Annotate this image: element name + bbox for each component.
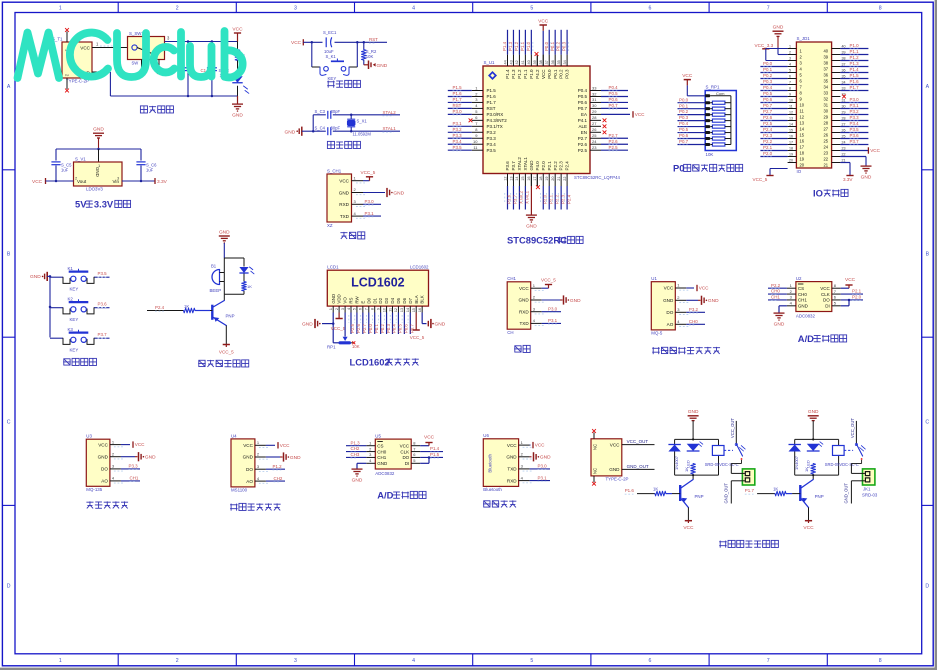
svg-text:P2.3: P2.3 — [560, 194, 565, 204]
svg-text:25: 25 — [592, 133, 597, 138]
svg-text:U6: U6 — [483, 433, 489, 438]
svg-text:Vout: Vout — [77, 179, 87, 184]
caption 串口 — [514, 345, 530, 352]
svg-text:VCC: VCC — [32, 179, 43, 185]
svg-text:GND: GND — [377, 63, 388, 69]
net label P1.4 (U5 CLK) — [420, 446, 443, 452]
ic U1 right pins with nets — [590, 85, 628, 151]
transistor Q1 PNP (alarm) — [212, 294, 234, 325]
svg-text:P3.6: P3.6 — [505, 161, 510, 171]
svg-text:11: 11 — [388, 308, 392, 312]
ground (LCD pin1) + wire to pot — [302, 306, 339, 343]
svg-text:1K: 1K — [804, 467, 809, 472]
svg-text:P1.5: P1.5 — [453, 85, 463, 90]
svg-text:IO: IO — [797, 169, 802, 174]
svg-text:DO: DO — [402, 455, 409, 460]
net label P1.7 (relay base) — [745, 488, 755, 494]
svg-text:P2.4: P2.4 — [763, 127, 773, 132]
net label P3.0 (U6 TXD) — [530, 464, 550, 470]
svg-text:10K: 10K — [352, 344, 360, 349]
ground (U4) — [266, 452, 301, 461]
capacitor C2 — [183, 42, 193, 97]
svg-text:VCC: VCC — [682, 73, 693, 79]
svg-text:P3.4: P3.4 — [850, 121, 860, 126]
svg-text:P1.5: P1.5 — [850, 73, 860, 78]
svg-text:TYPE-C-2P: TYPE-C-2P — [606, 477, 629, 482]
svg-text:P1.2: P1.2 — [850, 55, 860, 60]
svg-text:CS: CS — [377, 443, 383, 448]
svg-text:GND: GND — [93, 127, 104, 133]
svg-text:P0.3: P0.3 — [679, 115, 689, 120]
svg-text:CH1: CH1 — [507, 276, 516, 281]
net label XTAL2 — [383, 110, 397, 116]
svg-text:GND: GND — [609, 467, 620, 472]
svg-text:VCC_OUT: VCC_OUT — [627, 439, 649, 444]
connector JD1 pins — [788, 45, 846, 168]
svg-text:P0.5: P0.5 — [398, 324, 403, 333]
svg-text:VCC: VCC — [803, 525, 814, 531]
transistor Q PNP (relay driver) — [800, 475, 823, 507]
svg-text:P1.0: P1.0 — [529, 69, 534, 79]
svg-text:P1.7: P1.7 — [745, 488, 755, 493]
ground (JD1 pin 2) — [773, 25, 788, 55]
svg-text:16: 16 — [789, 135, 793, 139]
svg-text:P0.3: P0.3 — [562, 41, 567, 51]
svg-text:ADC0832: ADC0832 — [796, 314, 816, 319]
svg-text:34: 34 — [563, 60, 567, 64]
svg-text:P0.2: P0.2 — [556, 41, 561, 51]
power VCC (U3) — [121, 441, 145, 447]
svg-text:VCC: VCC — [280, 443, 290, 448]
svg-text:P0.5: P0.5 — [578, 94, 588, 99]
caption LCD1602显示模块 — [350, 357, 419, 368]
caption A/D转换电路 (bottom) — [377, 490, 426, 501]
svg-text:ADC0832: ADC0832 — [375, 471, 395, 476]
svg-text:P3.5: P3.5 — [98, 271, 108, 276]
power VCC_3.3 (JD1 pins 1,3) — [755, 43, 788, 60]
svg-text:XTAL2: XTAL2 — [517, 157, 522, 171]
net label P1.6 (relay base) — [625, 488, 635, 494]
svg-text:P3.3: P3.3 — [850, 115, 860, 120]
wires JD1 right nets P3.0-P3.7 — [840, 97, 868, 145]
svg-text:30: 30 — [592, 103, 597, 108]
caption A/D转换电路 (right) — [798, 333, 847, 344]
caption 声光报警电路 — [198, 360, 249, 367]
svg-text:LED: LED — [805, 460, 810, 468]
svg-text:GND: GND — [285, 129, 296, 135]
svg-text:5V: 5V — [75, 199, 87, 210]
svg-text:1: 1 — [329, 308, 333, 310]
svg-text:B1: B1 — [211, 263, 217, 268]
svg-text:1K: 1K — [653, 486, 658, 491]
svg-text:JK1: JK1 — [863, 487, 871, 492]
net label P2.1 (U2 CLK) — [841, 289, 863, 295]
svg-text:P0.5: P0.5 — [679, 127, 689, 132]
svg-text:26: 26 — [592, 127, 597, 132]
svg-text:P2.6: P2.6 — [763, 115, 773, 120]
svg-text:GND: GND — [808, 409, 819, 415]
svg-text:MS1100: MS1100 — [231, 488, 248, 493]
wire key bus vertical — [49, 275, 52, 337]
svg-text:U2: U2 — [796, 276, 802, 281]
svg-text:11.0592M: 11.0592M — [353, 131, 372, 136]
svg-text:P1.3: P1.3 — [511, 69, 516, 79]
svg-text:GND: GND — [352, 478, 363, 484]
net 3.3V out of LDO Vin — [122, 178, 168, 185]
svg-text:CH1: CH1 — [377, 455, 386, 460]
switch SW1 — [128, 31, 165, 66]
caption 晶振电路 — [327, 141, 360, 148]
svg-text:TXD: TXD — [507, 467, 517, 472]
relay coil K SRD-05VDC-SL-C — [825, 446, 859, 468]
svg-text:DI: DI — [825, 304, 830, 309]
svg-text:P4.3/INT2: P4.3/INT2 — [487, 118, 508, 123]
svg-text:13: 13 — [800, 120, 805, 125]
svg-text:P0.0: P0.0 — [368, 324, 373, 333]
svg-text:3.3V: 3.3V — [843, 177, 853, 182]
svg-text:6: 6 — [649, 658, 652, 664]
svg-text:19: 19 — [800, 156, 805, 161]
capacitor C4 30pF — [315, 125, 341, 135]
svg-text:VCC: VCC — [232, 27, 243, 33]
svg-text:P0.2: P0.2 — [763, 73, 773, 78]
svg-text:3: 3 — [294, 658, 297, 664]
svg-text:P0: P0 — [673, 163, 684, 174]
LED D (relay indicator) — [685, 442, 703, 468]
svg-text:34: 34 — [823, 84, 828, 89]
key K3 — [50, 327, 110, 353]
svg-text:P0.4: P0.4 — [679, 121, 689, 126]
key K1 (reset) — [312, 42, 358, 81]
svg-text:P0.4: P0.4 — [578, 88, 588, 93]
svg-text:12: 12 — [503, 177, 507, 181]
svg-text:A/D: A/D — [798, 333, 814, 344]
caption 下载口 — [340, 232, 364, 239]
svg-text:3: 3 — [294, 6, 297, 12]
svg-text:P1.4: P1.4 — [850, 67, 860, 72]
svg-text:VCC: VCC — [135, 442, 145, 447]
capacitor C5 1uF — [51, 162, 72, 181]
svg-text:28: 28 — [823, 120, 828, 125]
svg-text:P0.7: P0.7 — [763, 103, 773, 108]
svg-text:P2.4: P2.4 — [565, 161, 570, 171]
svg-text:VCC_5: VCC_5 — [410, 335, 425, 340]
svg-text:P2.2: P2.2 — [553, 161, 558, 171]
svg-text:GND: GND — [290, 455, 301, 461]
svg-text:P0.7: P0.7 — [578, 106, 588, 111]
svg-text:K2: K2 — [68, 296, 74, 301]
svg-text:GND: GND — [773, 25, 784, 31]
caption STC89C52RC主芯片 — [507, 235, 583, 246]
svg-text:P3.0: P3.0 — [365, 199, 375, 204]
ic U1 right pin names — [578, 88, 588, 153]
wire snubber loop — [795, 438, 839, 476]
svg-text:LCD1602: LCD1602 — [351, 276, 405, 290]
svg-text:P1.5: P1.5 — [430, 452, 440, 457]
svg-text:22: 22 — [563, 177, 567, 181]
svg-text:P1.5: P1.5 — [487, 88, 497, 93]
svg-text:RXD: RXD — [507, 478, 517, 483]
svg-text:P0.0: P0.0 — [547, 69, 552, 79]
svg-text:21: 21 — [557, 177, 561, 181]
power VCC into LDO Vout — [32, 178, 74, 185]
junction rail top C2 — [187, 40, 190, 43]
net label P1.5 (U5 DO/DI) — [420, 452, 443, 459]
svg-text:CH1: CH1 — [798, 298, 807, 303]
wires JD1 left nets P0.0-P0.7 P2.7-P2.0 — [760, 61, 787, 157]
svg-text:39: 39 — [533, 60, 537, 64]
svg-text:CH0: CH0 — [798, 292, 807, 297]
ground (gas) — [686, 296, 719, 305]
svg-text:P3.1: P3.1 — [850, 103, 860, 108]
svg-text:P2.0: P2.0 — [763, 151, 773, 156]
svg-text:4: 4 — [412, 6, 415, 12]
net label P3.0 (serial) — [542, 306, 561, 312]
svg-text:VCC_3.3: VCC_3.3 — [755, 43, 774, 48]
svg-text:P0.1: P0.1 — [553, 69, 558, 79]
svg-text:S_X1: S_X1 — [357, 118, 368, 123]
ground (U3) — [121, 452, 156, 461]
svg-text:PNP: PNP — [815, 494, 824, 499]
caption P0口上拉电阻电路 — [673, 163, 743, 174]
svg-text:P3.1: P3.1 — [365, 211, 375, 216]
resistor R 1K (relay base) — [637, 486, 680, 496]
svg-text:U5: U5 — [375, 434, 381, 439]
svg-text:K1: K1 — [68, 266, 74, 271]
net label P3.1 (download TXD) — [363, 211, 381, 217]
svg-text:A: A — [7, 84, 11, 90]
svg-text:VCC: VCC — [845, 277, 856, 283]
svg-text:D5: D5 — [396, 297, 401, 303]
ground (serial) — [542, 295, 581, 304]
svg-text:AO: AO — [667, 322, 674, 327]
svg-text:1K: 1K — [773, 486, 778, 491]
svg-text:6: 6 — [359, 308, 363, 310]
svg-text:KEY: KEY — [328, 76, 337, 81]
ground (U5 pin4) — [352, 463, 367, 483]
svg-text:VCC: VCC — [80, 45, 90, 50]
svg-text:P2.7: P2.7 — [578, 136, 588, 141]
svg-text:P2.7: P2.7 — [609, 133, 619, 138]
svg-text:D6: D6 — [402, 297, 407, 303]
svg-text:1K: 1K — [684, 467, 689, 472]
svg-text:23: 23 — [823, 150, 828, 155]
key K1 — [50, 266, 110, 292]
svg-text:U1: U1 — [651, 276, 657, 281]
svg-text:GND: GND — [98, 454, 109, 459]
svg-text:7: 7 — [767, 6, 770, 12]
module U4 MS1100 — [231, 433, 268, 492]
svg-text:VCC: VCC — [699, 286, 709, 291]
svg-text:10: 10 — [473, 139, 478, 144]
svg-text:15: 15 — [789, 129, 793, 133]
svg-text:DO: DO — [101, 467, 108, 472]
svg-text:39: 39 — [823, 54, 828, 59]
svg-text:P1.6: P1.6 — [487, 94, 497, 99]
svg-text:Bluetooth: Bluetooth — [487, 453, 492, 472]
svg-text:30pF: 30pF — [331, 109, 341, 114]
svg-text:41: 41 — [521, 60, 525, 64]
svg-text:5: 5 — [530, 6, 533, 12]
power VCC_5 (LCD pin15 BLA) — [410, 306, 425, 340]
svg-text:GND: GND — [861, 175, 872, 181]
svg-text:VCC: VCC — [507, 443, 517, 448]
svg-text:3.3V: 3.3V — [157, 179, 168, 185]
svg-text:P2.0: P2.0 — [852, 295, 862, 300]
svg-text:P2.5: P2.5 — [609, 145, 619, 150]
svg-text:26: 26 — [823, 132, 828, 137]
power VCC (U5 pin8) — [420, 435, 434, 446]
svg-text:P0.4: P0.4 — [392, 324, 397, 333]
svg-text:LDO3V3: LDO3V3 — [86, 187, 103, 192]
svg-text:D: D — [925, 584, 929, 590]
svg-text:LCD1602: LCD1602 — [350, 357, 390, 368]
svg-text:P1.3: P1.3 — [351, 440, 361, 445]
ground (keys bus) — [30, 272, 50, 281]
svg-text:3.3V: 3.3V — [94, 199, 114, 210]
svg-text:GND: GND — [570, 298, 581, 304]
no-connect pins U1 right (P4.1 ALE EN) — [603, 118, 607, 134]
svg-text:P2.3: P2.3 — [763, 133, 773, 138]
svg-text:P2.1: P2.1 — [548, 194, 553, 204]
svg-text:CLK: CLK — [821, 292, 830, 297]
svg-text:MQ-135: MQ-135 — [86, 487, 102, 492]
svg-text:P0.1: P0.1 — [550, 41, 555, 51]
capacitor C1 10uF — [201, 42, 230, 97]
svg-text:DO: DO — [666, 310, 673, 315]
svg-text:CH0: CH0 — [771, 289, 780, 294]
svg-text:P2.1: P2.1 — [763, 145, 773, 150]
transistor Q PNP (relay driver) — [680, 475, 703, 507]
svg-text:P0.0: P0.0 — [763, 61, 773, 66]
svg-text:VCC: VCC — [664, 286, 674, 291]
potentiometer RP1 10K (LCD VO) — [327, 306, 360, 350]
svg-text:VCC: VCC — [683, 525, 694, 531]
svg-text:12: 12 — [394, 308, 398, 312]
ic U1 bottom pin names (rotated) — [505, 157, 570, 171]
net VCC_OUT wire — [622, 439, 655, 444]
svg-text:S_U1: S_U1 — [484, 60, 496, 65]
svg-text:P0.7: P0.7 — [679, 139, 689, 144]
svg-text:D3: D3 — [384, 297, 389, 303]
svg-text:P3.3: P3.3 — [129, 464, 139, 469]
svg-text:P0.6: P0.6 — [404, 324, 409, 333]
svg-text:10K: 10K — [366, 54, 374, 59]
svg-text:P4.2: P4.2 — [535, 69, 540, 79]
svg-text:RP1: RP1 — [327, 345, 336, 350]
ground (U6) — [530, 452, 551, 461]
svg-text:9: 9 — [789, 93, 791, 97]
svg-text:VCC_5: VCC_5 — [331, 326, 346, 331]
svg-text:PNP: PNP — [226, 314, 235, 319]
svg-text:4: 4 — [412, 658, 415, 664]
LED D (relay indicator) — [805, 442, 823, 468]
svg-text:P2.0: P2.0 — [541, 161, 546, 171]
svg-text:GND: GND — [663, 298, 674, 303]
svg-text:XZ: XZ — [327, 223, 333, 228]
svg-text:P0.6: P0.6 — [609, 97, 619, 102]
svg-text:TXD: TXD — [520, 321, 530, 326]
wires P0.0-P0.7 into RP1 — [678, 97, 706, 145]
svg-text:20: 20 — [789, 159, 793, 163]
wire alarm top node — [224, 258, 244, 268]
ground (LDO top) — [93, 127, 104, 149]
caption IO拓展口 — [813, 188, 848, 199]
svg-text:P2.5: P2.5 — [350, 324, 355, 333]
power VCC on EA pin — [601, 111, 645, 117]
svg-text:VCC_5: VCC_5 — [219, 350, 234, 355]
svg-text:P0.1: P0.1 — [374, 324, 379, 333]
svg-text:TXD: TXD — [340, 214, 350, 219]
svg-text:P3.6: P3.6 — [850, 133, 860, 138]
net label CH2 (U4 AO) — [266, 476, 285, 482]
no-connect pins of T1 — [65, 28, 69, 92]
svg-text:14: 14 — [800, 126, 805, 131]
svg-text:11: 11 — [789, 105, 793, 109]
svg-text:3: 3 — [789, 57, 791, 61]
MCUclub logo — [18, 31, 243, 78]
svg-text:P0.0: P0.0 — [679, 97, 689, 102]
module U1 MQ-5 gas sensor — [651, 276, 688, 335]
svg-text:30pF: 30pF — [331, 125, 341, 130]
svg-text:VCC: VCC — [610, 442, 620, 447]
ic U1 left pin names — [487, 88, 508, 153]
svg-text:P1.1: P1.1 — [520, 41, 525, 51]
net label P3.1 (U6 RXD) — [530, 475, 550, 481]
svg-text:P1.4: P1.4 — [502, 41, 507, 51]
svg-text:P0.7: P0.7 — [409, 324, 414, 333]
svg-text:1N4007: 1N4007 — [794, 455, 799, 470]
svg-text:S_C4: S_C4 — [315, 125, 326, 130]
svg-text:P2.5: P2.5 — [763, 121, 773, 126]
svg-text:P3.4: P3.4 — [487, 142, 497, 147]
svg-text:44: 44 — [503, 60, 507, 64]
ic U1 STC89C52RC_LQFP44 body — [483, 60, 620, 180]
svg-text:AO: AO — [101, 479, 108, 484]
svg-text:VCC: VCC — [519, 286, 529, 291]
net label RST — [369, 37, 378, 43]
svg-text:21: 21 — [823, 162, 828, 167]
net label CH1 (U3 AO) — [121, 476, 140, 482]
power VCC (RP1) — [682, 73, 693, 85]
svg-text:GND: GND — [377, 461, 388, 466]
svg-text:GND: GND — [243, 455, 254, 460]
svg-text:29: 29 — [823, 114, 828, 119]
svg-text:8: 8 — [789, 87, 791, 91]
svg-text:LCD1602: LCD1602 — [410, 265, 429, 270]
svg-text:37: 37 — [545, 60, 549, 64]
column zone ticks top — [118, 2, 827, 666]
net GND_OUT wire — [622, 464, 655, 469]
nets U2 left P2.2 CH0 CH1 — [768, 283, 787, 301]
svg-text:22: 22 — [823, 156, 828, 161]
svg-text:STC89C52RC: STC89C52RC — [507, 235, 567, 246]
svg-text:VCC: VCC — [538, 18, 549, 24]
svg-text:U4: U4 — [231, 433, 237, 438]
svg-text:D4: D4 — [390, 297, 395, 303]
svg-text:20: 20 — [800, 162, 805, 167]
svg-text:P2.4: P2.4 — [155, 305, 165, 310]
power VCC (relay emitter) — [683, 508, 694, 532]
svg-text:P1.1: P1.1 — [523, 69, 528, 79]
svg-text:15: 15 — [521, 177, 525, 181]
svg-text:P2.7: P2.7 — [362, 324, 367, 333]
svg-text:RS: RS — [349, 297, 354, 303]
svg-text:CH3: CH3 — [351, 452, 360, 457]
svg-text:13: 13 — [400, 308, 404, 312]
ground (relay driver) — [808, 409, 819, 439]
svg-text:VCC_5: VCC_5 — [361, 170, 376, 175]
